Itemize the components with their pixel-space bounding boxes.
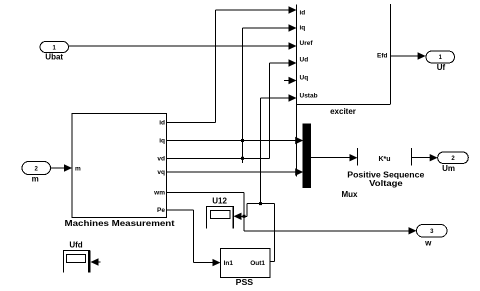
block PSS: [221, 249, 271, 278]
svg-text:id: id: [159, 120, 165, 127]
svg-text:PSS: PSS: [236, 278, 254, 287]
svg-text:Uq: Uq: [300, 75, 309, 82]
scope U12: [206, 207, 208, 229]
wire Ubat to Uref: [69, 45, 291, 47]
arrow into measurement m: [64, 164, 72, 171]
arrow into outport w: [409, 227, 417, 234]
svg-text:Voltage: Voltage: [369, 179, 403, 188]
wire Ufd stub: [95, 261, 101, 263]
svg-text:iq: iq: [159, 138, 165, 145]
arrow into exciter Ud: [289, 59, 297, 66]
block exciter (left, right, bottom edges only): [296, 5, 298, 105]
outport oval 2 Um: [438, 152, 469, 164]
wire Pe to PSS: [167, 209, 194, 211]
Mux bar: [303, 124, 311, 188]
svg-text:U12: U12: [212, 196, 227, 205]
outport oval 1 Uf: [426, 51, 455, 63]
svg-text:In1: In1: [224, 260, 234, 267]
wire Efd to Uf: [391, 55, 420, 57]
junction dot Ustab riser on PSS wire: [259, 202, 262, 205]
wire PSS out up and over: [270, 260, 275, 262]
arrow into exciter iq: [289, 24, 297, 31]
svg-text:Ubat: Ubat: [45, 52, 63, 61]
inport oval 2 m: [22, 162, 51, 175]
wire vd branch to exciter port 2: [242, 28, 244, 163]
svg-text:K*u: K*u: [378, 156, 390, 163]
junction dot iq riser cross: [241, 139, 244, 142]
arrow into scope Ufd (points left): [91, 258, 99, 265]
svg-text:vd: vd: [157, 156, 165, 163]
wire m inport: [51, 167, 66, 169]
svg-text:Uf: Uf: [437, 63, 446, 72]
wire mux out: [311, 157, 351, 159]
svg-text:m: m: [32, 174, 39, 183]
wire wm to w outport: [167, 191, 245, 193]
svg-text:Machines Measurement: Machines Measurement: [65, 219, 175, 228]
svg-text:m: m: [75, 166, 81, 173]
arrow into outport Uf: [418, 52, 426, 59]
svg-text:Efd: Efd: [377, 53, 388, 60]
svg-text:Mux: Mux: [342, 190, 359, 199]
junction dot vq riser: [296, 171, 299, 174]
block Machines Measurement: [72, 114, 167, 218]
arrow into PSS In1: [213, 259, 221, 266]
junction dot vd/port2: [241, 157, 244, 160]
svg-text:iq: iq: [300, 25, 306, 32]
svg-text:exciter: exciter: [330, 107, 356, 116]
wire Ustab: [260, 98, 262, 204]
arrow into mux in2: [295, 168, 303, 175]
arrow into gain: [350, 154, 358, 161]
arrow into exciter Ustab: [289, 94, 297, 101]
wire gain out: [412, 157, 432, 159]
gain K*u Positive Sequence Voltage (left/right edges): [357, 148, 359, 166]
svg-text:vq: vq: [157, 169, 165, 176]
svg-text:Ufd: Ufd: [69, 240, 82, 249]
svg-text:Uref: Uref: [300, 40, 314, 47]
wire vq riser to Uq: [296, 81, 298, 177]
svg-text:w: w: [424, 238, 432, 247]
svg-text:Out1: Out1: [250, 260, 265, 267]
scope Ufd: [63, 251, 65, 273]
inport oval 1 Ubat: [40, 42, 69, 53]
svg-text:id: id: [300, 10, 306, 17]
svg-text:Ud: Ud: [300, 57, 309, 64]
wire id: [167, 122, 216, 124]
svg-text:wm: wm: [153, 190, 165, 197]
arrow into exciter Uq: [289, 77, 297, 84]
arrow into scope U12 (points left): [234, 213, 242, 220]
arrow into exciter id: [289, 6, 297, 13]
wire iq to mux: [167, 140, 297, 142]
outport oval 3 w: [417, 225, 448, 238]
wire vd: [167, 157, 270, 159]
arrow into exciter Uref: [289, 42, 297, 49]
arrow into outport Um: [430, 154, 438, 161]
wire vq to mux: [167, 171, 297, 173]
svg-text:Um: Um: [442, 164, 455, 173]
svg-text:Ustab: Ustab: [300, 93, 318, 100]
svg-text:Pe: Pe: [157, 207, 165, 214]
arrow into mux in1: [295, 137, 303, 144]
junction dot wm scope branch: [243, 215, 246, 218]
